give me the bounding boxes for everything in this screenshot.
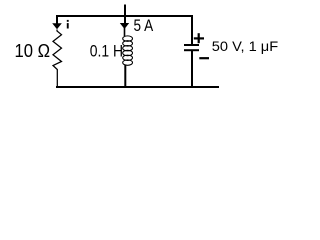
svg-text:50 V, 1 μF: 50 V, 1 μF (212, 39, 279, 55)
svg-text:5 A: 5 A (134, 17, 154, 36)
svg-text:10 Ω: 10 Ω (15, 40, 51, 61)
svg-text:0.1 H: 0.1 H (90, 42, 123, 61)
